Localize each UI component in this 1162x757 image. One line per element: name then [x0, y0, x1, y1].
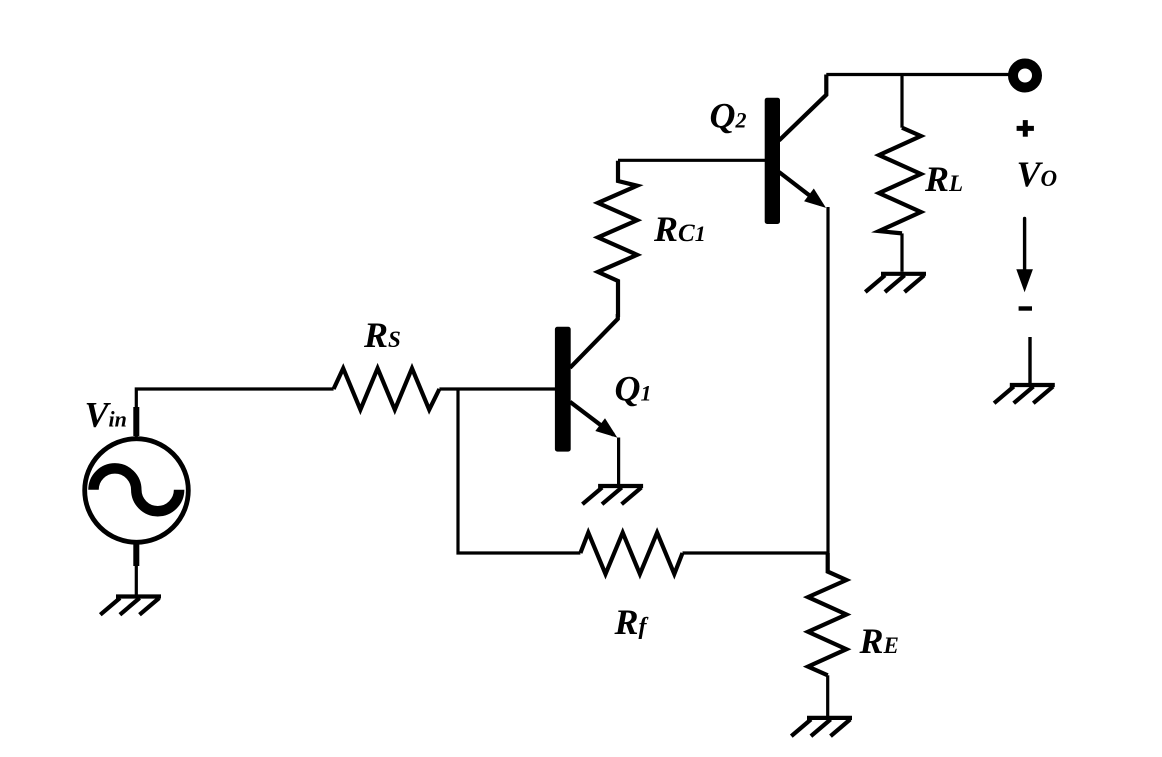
wire minus to ground — [1028, 337, 1031, 384]
source Vin sine wave — [93, 468, 179, 511]
wire node A drop to feedback — [458, 389, 580, 553]
wire Vin bottom to ground — [135, 543, 138, 595]
transistor Q1 emitter arrowhead — [595, 418, 617, 437]
resistor RL zigzag — [879, 128, 921, 234]
transistor Q1 base bar — [555, 327, 571, 452]
ground (RL) — [865, 274, 926, 292]
wire RC1 to Q2 base — [618, 159, 766, 162]
resistor RE zigzag — [808, 553, 846, 675]
wire Q2 emitter down to node B — [826, 207, 829, 553]
transistor Q2 collector line — [779, 75, 826, 141]
transistor Q2 emitter arrowhead — [804, 189, 826, 208]
transistor Q2 emitter line — [779, 172, 821, 204]
arrow VO polarity — [1023, 219, 1026, 272]
transistor Q2 base bar — [765, 98, 780, 224]
source Vin circle — [85, 439, 189, 543]
ground (RE) — [791, 718, 852, 736]
svg-text:RL: RL — [924, 159, 963, 199]
node Vin terminal stub bottom — [133, 544, 139, 566]
ground (Vin) — [100, 597, 161, 615]
wire Rf to node B — [683, 551, 830, 554]
node output terminal — [1013, 64, 1037, 88]
svg-text:Vin: Vin — [85, 394, 127, 434]
label minus sign — [1019, 306, 1032, 310]
wire Vin top to Rs — [136, 389, 333, 437]
transistor Q1 collector line — [570, 314, 618, 368]
node Vin terminal stub top — [133, 407, 139, 436]
wire top rail Q2 collector to output — [826, 73, 1010, 76]
svg-text:VO: VO — [1017, 154, 1058, 194]
svg-text:RE: RE — [859, 621, 899, 661]
svg-text:RS: RS — [363, 315, 401, 355]
label plus sign — [1017, 120, 1034, 137]
resistor RS zigzag — [334, 368, 440, 409]
svg-text:RC1: RC1 — [653, 209, 706, 249]
resistor Rf zigzag — [580, 533, 682, 574]
svg-text:Q1: Q1 — [615, 368, 652, 408]
ground (output) — [994, 385, 1055, 403]
ground (Q1 emitter) — [582, 486, 643, 504]
wire Rs to Q1 base — [439, 387, 556, 390]
wire RE to ground — [826, 675, 829, 716]
resistor RC1 zigzag — [598, 161, 637, 317]
wire Q1 emitter to ground — [617, 438, 620, 485]
wire RL to ground — [900, 233, 903, 271]
transistor Q1 emitter line — [570, 402, 614, 435]
svg-text:Rf: Rf — [614, 602, 649, 642]
svg-text:Q2: Q2 — [710, 96, 747, 136]
wire top rail to RL — [900, 75, 903, 128]
